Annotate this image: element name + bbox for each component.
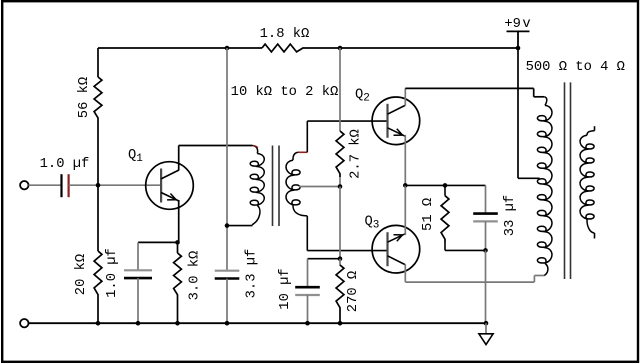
capacitor C3 3.3 µf (decoupling)	[215, 270, 240, 272]
svg-text:500 Ω to 4 Ω: 500 Ω to 4 Ω	[526, 60, 625, 75]
wire Q2 emitter down	[404, 135, 406, 186]
input terminal (signal)	[20, 181, 28, 189]
wire B+ feed vertical (rail to T1 primary bottom and C3)	[226, 48, 228, 271]
wire divider from rail down	[339, 48, 341, 131]
resistor R3 20 kΩ	[94, 251, 102, 298]
wire bypass cap bottom to ground rail	[137, 278, 139, 323]
wire bias network to ground rail	[485, 250, 487, 323]
node ground rail junction 3.3µf	[225, 321, 230, 326]
wire Q1 emitter down	[178, 200, 180, 242]
svg-text:10 kΩ to 2 kΩ: 10 kΩ to 2 kΩ	[231, 84, 339, 100]
wire 33µf bottom	[485, 221, 487, 250]
wire Q3 emitter up	[404, 185, 406, 235]
wire Q3 collector down	[404, 264, 406, 282]
transistor Q1	[146, 162, 194, 210]
svg-text:1.0 µf: 1.0 µf	[104, 248, 120, 298]
node ground rail junction bypass cap	[136, 321, 141, 326]
wire 3.0k to ground rail	[177, 298, 179, 323]
node ground rail junction 3.0k	[175, 321, 180, 326]
wire emitter node to bypass cap	[138, 241, 178, 243]
capacitor C5 33 µf	[473, 212, 498, 215]
node emitter junction Q2/Q3	[403, 183, 408, 188]
svg-text:33 µf: 33 µf	[502, 195, 518, 236]
transformer T2 secondary winding	[587, 131, 595, 136]
svg-text:1.0 µf: 1.0 µf	[40, 156, 90, 172]
wire Q1 collector up	[178, 146, 180, 171]
wire 20k to ground rail	[97, 298, 99, 323]
svg-text:56 kΩ: 56 kΩ	[76, 77, 92, 118]
wire input to C1	[29, 184, 62, 186]
wire T1 secondary center tap	[299, 186, 340, 188]
wire T1 secondary top to Q2 base	[306, 121, 308, 152]
wire center tap node down	[339, 187, 341, 259]
svg-text:2.7 kΩ: 2.7 kΩ	[348, 129, 364, 179]
wire C4 bottom to ground rail	[307, 295, 309, 323]
wire to C4 10 µf	[308, 258, 341, 260]
svg-text:1.8 kΩ: 1.8 kΩ	[260, 26, 310, 42]
svg-text:270 Ω: 270 Ω	[346, 271, 361, 312]
transformer T2 primary winding	[544, 97, 546, 106]
node center tap junction	[338, 184, 343, 189]
node junction bias / 10µf	[338, 256, 343, 261]
node Q1 emitter junction	[175, 240, 180, 245]
capacitor C2 1.0 µf (emitter bypass)	[124, 269, 152, 271]
transformer T1 primary top arc red accent	[253, 146, 258, 148]
wire Q2 collector up	[404, 88, 406, 105]
transformer T1 secondary winding	[293, 152, 298, 160]
capacitor C4 10 µf	[295, 286, 320, 289]
capacitor C1 1.0 µf (input coupling)	[60, 174, 62, 197]
resistor R7 51 Ω	[441, 196, 449, 243]
wire Q1 collector to T1 primary top	[179, 145, 252, 147]
wire Q2 collector to output transformer primary top	[405, 87, 533, 89]
resistor R5 2.7 kΩ	[336, 131, 344, 177]
svg-text:+9v: +9v	[504, 17, 530, 32]
wire 56k bottom to input node	[97, 121, 99, 185]
node junction 51Ω top	[443, 183, 448, 188]
node ground rail junction 10µf	[305, 321, 310, 326]
node ground rail junction 270Ω	[338, 321, 343, 326]
svg-text:20 kΩ: 20 kΩ	[73, 254, 89, 295]
wire C1 to Q1 base	[69, 184, 161, 186]
wire T1 secondary bottom to Q3 base	[306, 216, 308, 251]
ground	[485, 323, 487, 334]
wire left branch from rail down to 56k	[97, 48, 99, 77]
resistor R2 1.8 kΩ (top rail)	[262, 44, 306, 52]
ground terminal (bottom-left)	[20, 319, 28, 327]
node junction 51Ω/33µf bottom	[483, 248, 488, 253]
wire T1 primary bottom to B+ node	[227, 225, 253, 227]
node junction +9v on rail	[516, 46, 521, 51]
svg-text:51 Ω: 51 Ω	[421, 198, 436, 231]
transistor Q2	[372, 97, 420, 145]
node junction top rail / B+ feed	[225, 46, 230, 51]
wire 33µf top	[485, 185, 487, 213]
transformer T2 core	[564, 82, 566, 279]
wire 51 top	[444, 185, 446, 195]
wire bypass cap top	[137, 242, 139, 270]
svg-text:10 µf: 10 µf	[277, 268, 293, 309]
transformer T1 core	[272, 146, 274, 227]
wire input node down to 20k	[97, 185, 99, 251]
node T1 primary bottom junction	[225, 223, 230, 228]
resistor R4 3.0 kΩ	[174, 253, 182, 298]
wire +9v down to output transformer center tap	[517, 48, 519, 178]
resistor R6 270 Ω	[339, 259, 341, 266]
wire C4 top	[307, 259, 309, 288]
wire 270 to ground rail	[339, 311, 341, 323]
transistor Q3	[372, 225, 420, 273]
wire C3 to ground rail	[226, 279, 228, 324]
wire Q3 collector to output transformer primary bottom	[405, 281, 534, 283]
node ground rail junction at ground symbol	[484, 321, 489, 326]
wire emitter node to 51Ω and 33µf	[405, 184, 485, 186]
node ground rail junction 20k	[96, 321, 101, 326]
wire ground rail (bottom)	[29, 322, 487, 324]
svg-text:3.0 kΩ: 3.0 kΩ	[187, 251, 203, 301]
wire 51 bottom	[444, 243, 446, 251]
wire 2.7k bottom to center tap node	[339, 177, 341, 187]
node input junction	[96, 183, 101, 188]
svg-text:3.3 µf: 3.3 µf	[244, 249, 260, 299]
transformer T1 primary winding	[252, 146, 258, 154]
wire center tap of output transformer	[518, 177, 540, 179]
node junction top rail / 2.7k divider	[338, 46, 343, 51]
wire top supply rail	[98, 47, 262, 49]
resistor R1 56 kΩ	[94, 77, 102, 121]
wire Q1 emitter node to 3.0k	[177, 242, 179, 253]
